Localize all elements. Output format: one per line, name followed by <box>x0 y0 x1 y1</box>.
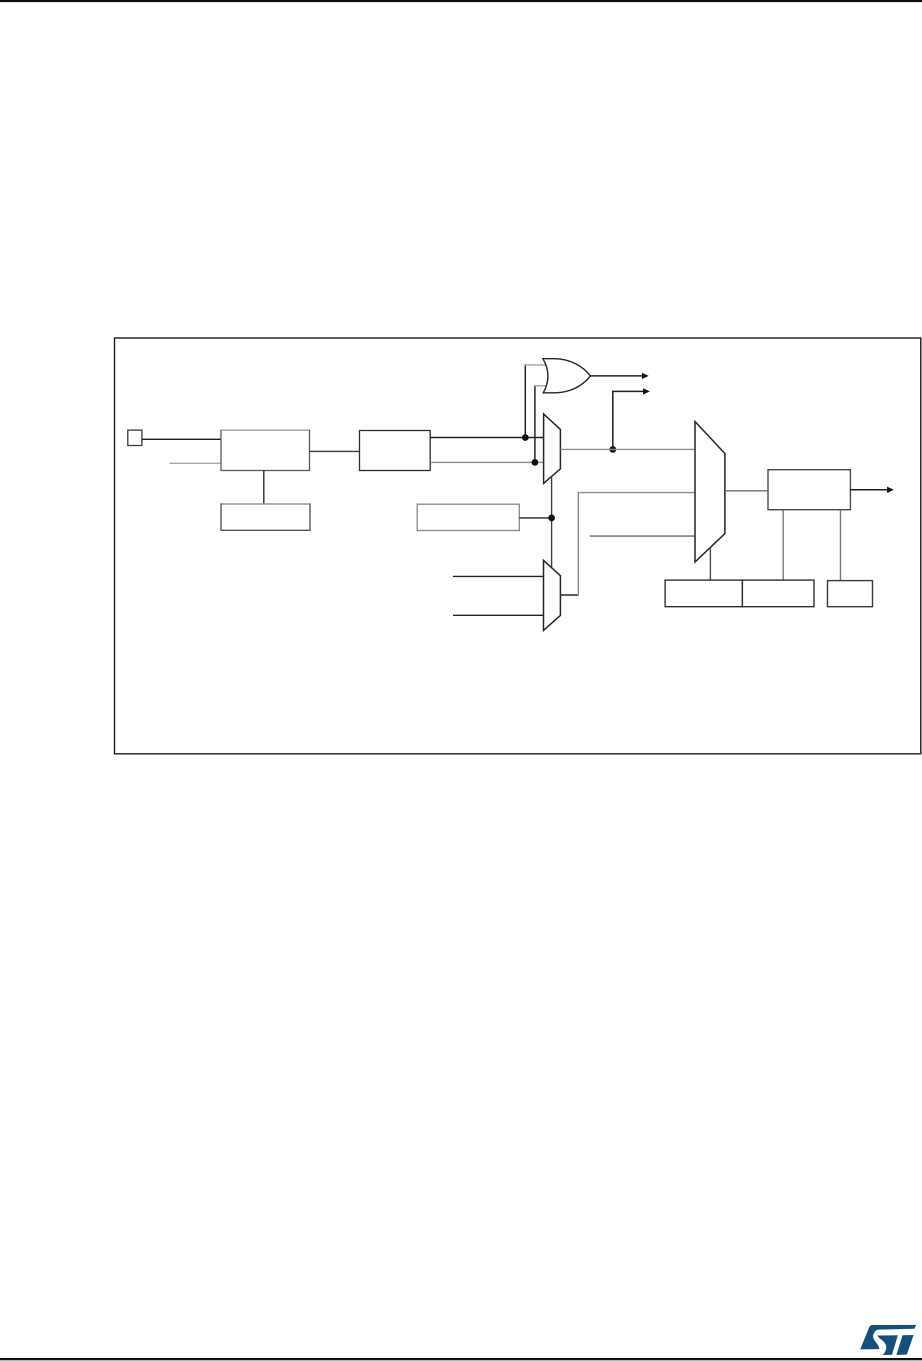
wire M2 output top run to M3 (gray) <box>578 492 695 494</box>
footer rule <box>0 1358 922 1360</box>
OR gate G1 <box>543 359 590 393</box>
block B1 (input stage) <box>221 430 310 470</box>
wire M2 input 1 <box>453 575 544 577</box>
arrowhead output 1 <box>642 373 649 379</box>
wire to output arrow 2 <box>613 391 645 449</box>
wire stub into B1 (gray) <box>170 462 222 464</box>
wire M1 output to mux M3 (gray) <box>560 448 695 450</box>
pin PD0 <box>128 430 142 445</box>
wire select line to M3 <box>590 535 695 537</box>
mux M1 <box>544 414 561 484</box>
block B3 (control register) <box>221 504 310 530</box>
wire B4 output <box>519 517 551 519</box>
block B7b (status register 2) <box>742 580 814 607</box>
junction dot on M1 output <box>609 446 616 453</box>
wire M2 output riser (gray) <box>577 492 579 596</box>
junction dot B <box>532 459 539 466</box>
block B4 (register, gray) <box>417 504 519 530</box>
wire M1 bottom to mux M2 <box>551 477 553 568</box>
wire B2 top output to mux M1 <box>430 437 543 439</box>
mux M3 (big) <box>695 422 725 563</box>
wire M3 output to B5 <box>725 490 768 492</box>
junction dot A <box>522 434 529 441</box>
arrowhead output 3 <box>887 487 894 493</box>
wire B2 bottom output to mux M1 (gray) <box>430 461 543 463</box>
wire B1 to B3 <box>263 471 265 505</box>
mux M2 <box>544 560 561 630</box>
wire B1 to B2 <box>310 450 360 452</box>
wire riser B to OR gate input 2 <box>534 385 548 462</box>
figure frame <box>115 338 921 754</box>
wire riser A to OR gate input 1 <box>525 364 547 437</box>
block B5 (counter) <box>768 470 850 510</box>
header rule <box>0 0 922 2</box>
junction dot C <box>548 515 555 522</box>
wire OR gate output <box>590 375 643 377</box>
ST logo <box>860 1325 916 1355</box>
wire B5 output arrow <box>850 489 888 491</box>
arrowhead output 2 <box>643 388 650 394</box>
wire B5 to B7b (gray) <box>782 510 784 580</box>
wire M3 bottom to B7a <box>709 548 711 581</box>
wire pin to block B1 <box>142 438 221 440</box>
wire M2 output short <box>560 594 579 596</box>
wire M2 input 2 <box>453 614 544 616</box>
block B2 (divider) <box>360 431 431 471</box>
block B7a (status register) <box>665 580 742 607</box>
block B6 (flag) <box>828 581 873 607</box>
wire B5 to B6 (gray) <box>840 510 842 581</box>
